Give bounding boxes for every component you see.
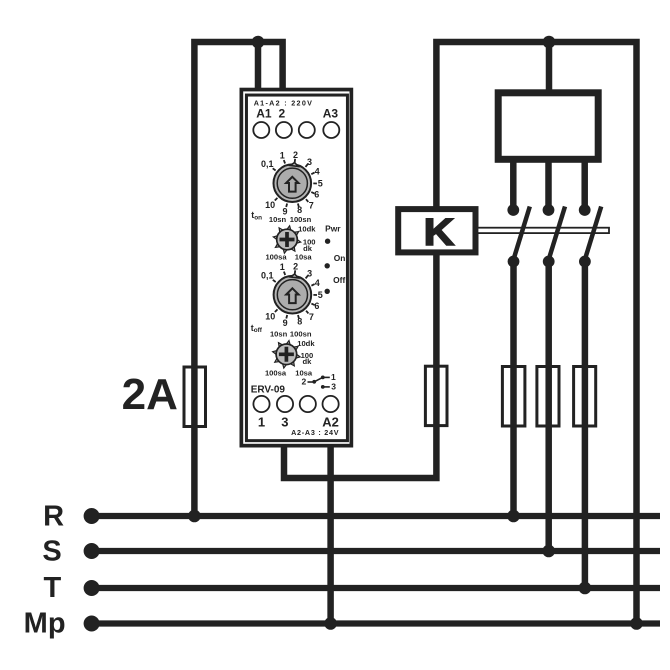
- svg-text:4: 4: [315, 166, 320, 176]
- svg-text:2: 2: [293, 262, 298, 272]
- load box (motor/load): [498, 93, 598, 160]
- range knob ton: + slot: [280, 232, 295, 247]
- label K: [424, 210, 455, 253]
- svg-text:2: 2: [278, 107, 285, 121]
- timer relay ERV-09: outer case: [241, 90, 351, 446]
- changeover contact diagram: pin 1: [321, 376, 325, 380]
- junction: node at load box tap: [543, 36, 556, 49]
- svg-text:2: 2: [293, 150, 298, 160]
- svg-text:10dk: 10dk: [298, 225, 316, 234]
- svg-text:5: 5: [318, 179, 323, 189]
- svg-text:8: 8: [297, 205, 302, 215]
- wire: stub from top-right wire to load box: [546, 44, 553, 95]
- svg-text:2: 2: [302, 377, 307, 387]
- svg-text:8: 8: [297, 316, 302, 326]
- svg-text:7: 7: [309, 200, 314, 210]
- svg-text:1: 1: [258, 414, 265, 429]
- dial ton: pointer notch: [290, 163, 298, 167]
- svg-text:ERV-09: ERV-09: [251, 384, 286, 395]
- svg-text:9: 9: [283, 318, 288, 328]
- contact K1 lower terminal: [508, 256, 520, 268]
- dial toff: arrow marker: [286, 288, 298, 303]
- junction: node at relay A1 tap: [252, 36, 265, 49]
- terminal A2: [323, 396, 339, 412]
- dial toff: scale tick marks: [273, 270, 317, 318]
- terminal (unlabeled bottom): [300, 396, 316, 412]
- svg-text:10dk: 10dk: [297, 339, 315, 348]
- fuse F5 (phase T load): [574, 367, 596, 427]
- dial ton: scale numbers 0,1-10: [261, 150, 323, 217]
- svg-text:dk: dk: [303, 244, 313, 253]
- junction: contact K1 on R bus: [507, 510, 520, 523]
- svg-text:100sa: 100sa: [265, 253, 287, 262]
- contact K2 upper terminal: [543, 204, 555, 216]
- svg-text:1: 1: [280, 151, 285, 161]
- svg-text:6: 6: [314, 301, 319, 311]
- svg-text:3: 3: [331, 382, 336, 392]
- fuse F4 (phase S load): [537, 367, 559, 427]
- wire: T phase bus: [92, 585, 660, 591]
- dial toff: pointer notch: [291, 274, 299, 278]
- contactor coil K: [398, 209, 475, 252]
- wire: R phase bus: [92, 513, 660, 519]
- svg-text:Mp: Mp: [24, 608, 66, 640]
- junction: control feed on R bus: [188, 510, 201, 523]
- svg-text:3: 3: [307, 268, 312, 278]
- contact K3 upper terminal: [579, 204, 591, 216]
- contact K2 blade: [549, 207, 565, 260]
- node R: bus start terminal: [84, 508, 100, 524]
- terminal 2: [276, 122, 292, 138]
- svg-text:S: S: [42, 536, 61, 568]
- svg-text:6: 6: [314, 190, 319, 200]
- svg-text:100sn: 100sn: [290, 215, 312, 224]
- svg-text:0,1: 0,1: [261, 271, 274, 281]
- wire: contact K2 bottom through fuse to S bus: [545, 259, 552, 551]
- svg-text:10sa: 10sa: [295, 253, 313, 262]
- node T: bus start terminal: [84, 580, 100, 596]
- terminal 1: [253, 396, 269, 412]
- svg-text:dk: dk: [302, 357, 312, 366]
- fuse F2 (contactor coil): [425, 366, 447, 425]
- terminal A3: [323, 122, 339, 138]
- terminal 3: [277, 396, 293, 412]
- wire: load box to contact K1 top: [510, 158, 517, 207]
- svg-text:A2-A3 : 24V: A2-A3 : 24V: [291, 428, 339, 437]
- dial ton: arrow marker: [286, 177, 298, 192]
- wire: top-right run, Mp riser / top horizontal / down to contactor coil K A1: [436, 42, 636, 624]
- svg-text:0,1: 0,1: [261, 159, 274, 169]
- wire: stub from top wire to relay terminal A1: [255, 44, 262, 92]
- wire: load box to contact K2 top: [545, 158, 552, 207]
- wire: contact K1 bottom through fuse to R bus: [510, 259, 517, 516]
- dial toff: inner disc: [277, 280, 307, 310]
- dial toff: knob body: [274, 276, 312, 314]
- wire: contactor coil K bottom through 2A fuse, left to relay terminal 3: [284, 252, 436, 478]
- svg-text:10: 10: [265, 312, 275, 322]
- dial ton: scale tick marks: [273, 159, 317, 207]
- LED On: [325, 263, 330, 268]
- range knob ton: gear knob: [273, 226, 300, 253]
- svg-text:2A: 2A: [122, 370, 178, 419]
- junction: contact K3 on T bus: [579, 582, 592, 595]
- terminal A1: [253, 122, 269, 138]
- contact K3 lower terminal: [579, 256, 591, 268]
- dial ton: knob body: [274, 164, 312, 202]
- node S: bus start terminal: [84, 543, 100, 559]
- LED Pwr: [325, 239, 330, 244]
- svg-text:Pwr: Pwr: [325, 224, 341, 234]
- mechanical linkage bar from K to contacts: [478, 228, 610, 233]
- timer relay ERV-09: inner face plate: [246, 95, 347, 441]
- dial ton: inner disc: [277, 168, 307, 198]
- svg-text:R: R: [43, 501, 64, 533]
- LED Off: [325, 289, 330, 294]
- wire: load box to contact K3 top: [581, 158, 588, 207]
- wire: contact K3 bottom through fuse to T bus: [582, 259, 589, 588]
- svg-text:A2: A2: [322, 414, 339, 429]
- wire: S phase bus: [92, 548, 660, 554]
- svg-text:3: 3: [307, 157, 312, 167]
- junction: contact K2 on S bus: [542, 545, 555, 558]
- svg-text:A1: A1: [256, 107, 272, 121]
- wire: relay terminal A2 down to Mp bus: [327, 438, 334, 624]
- changeover contact diagram: pin 3: [321, 385, 325, 389]
- contact K1 blade: [514, 207, 530, 260]
- svg-text:10sn: 10sn: [269, 215, 287, 224]
- changeover contact diagram: blade 2-1: [314, 377, 322, 381]
- svg-text:On: On: [334, 253, 346, 263]
- terminal (unlabeled top): [299, 122, 315, 138]
- svg-text:1: 1: [280, 262, 285, 272]
- svg-text:T: T: [43, 572, 61, 604]
- svg-text:4: 4: [315, 278, 320, 288]
- svg-text:100sa: 100sa: [265, 369, 287, 378]
- svg-text:10sn: 10sn: [270, 329, 288, 338]
- contact K1 upper terminal: [507, 204, 519, 216]
- range knob toff: + slot: [279, 347, 294, 362]
- svg-text:3: 3: [281, 414, 288, 429]
- dial toff: scale numbers 0,1-10: [261, 262, 323, 329]
- wire: phase R up left vertical and top-left horizontal to relay terminal 2: [194, 42, 282, 516]
- fuse F1 2A (control circuit): [184, 367, 206, 427]
- svg-text:100sn: 100sn: [290, 329, 312, 338]
- svg-text:10: 10: [265, 200, 275, 210]
- node Mp: bus start terminal: [84, 616, 100, 632]
- contact K3 blade: [585, 207, 601, 260]
- wire: Mp neutral bus: [92, 620, 660, 626]
- svg-text:5: 5: [318, 290, 323, 300]
- svg-text:Off: Off: [333, 275, 345, 285]
- junction: right riser on Mp bus: [630, 617, 643, 630]
- junction: relay A2 on Mp bus: [324, 617, 337, 630]
- range knob toff: gear knob: [273, 341, 300, 368]
- svg-text:7: 7: [309, 312, 314, 322]
- svg-text:A3: A3: [323, 107, 339, 121]
- fuse F3 (phase R load): [502, 367, 525, 427]
- svg-text:K: K: [424, 210, 455, 253]
- contact K2 lower terminal: [543, 256, 555, 268]
